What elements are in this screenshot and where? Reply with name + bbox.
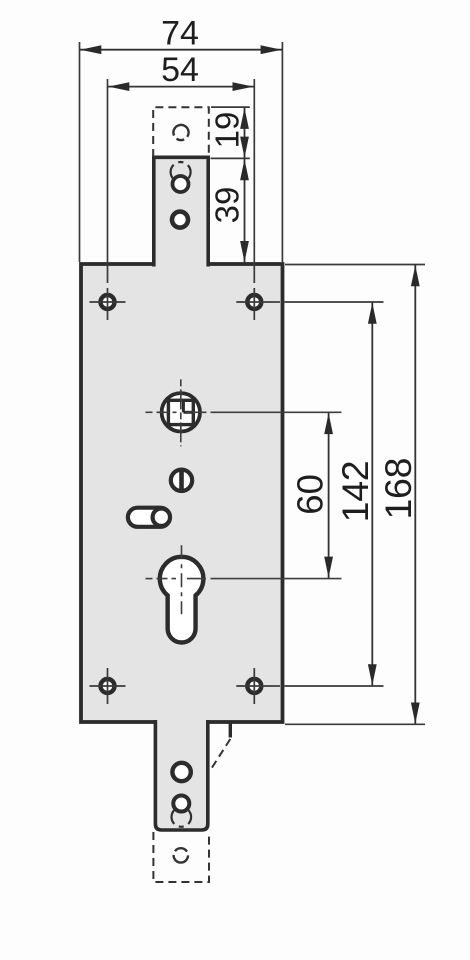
dimension 60 extension bottom (cylinder centerline)	[146, 578, 342, 580]
svg-text:74: 74	[161, 14, 199, 52]
screw hole top-right	[236, 288, 272, 320]
big hole in bottom tab	[172, 763, 190, 781]
spindle square hole	[168, 400, 193, 424]
cylinder vertical centerline	[181, 545, 183, 614]
dimension text 74	[161, 14, 199, 52]
dimension 142 line and arrows	[368, 302, 377, 686]
dimension 168 extension bottom	[285, 723, 425, 725]
dimension text 54	[161, 51, 199, 89]
screw hole top-left	[90, 288, 126, 320]
dashed diagonal at bottom tab	[210, 739, 231, 772]
svg-text:60: 60	[289, 474, 330, 515]
hole arc in top dashed extension	[170, 122, 191, 143]
dimension 54 line and arrows	[108, 82, 255, 91]
body bottom right stub	[229, 722, 232, 738]
bottom faceplate tab	[155, 720, 207, 830]
dimension 168 extension top	[285, 264, 425, 266]
thick small hole of figure-8 in top tab	[173, 176, 189, 192]
dimension text 168	[377, 458, 419, 520]
spindle vertical centerline	[180, 379, 182, 446]
dimension 54 extension left	[107, 79, 109, 283]
screw hole bottom-right	[236, 668, 272, 704]
dimension 19 and 39 line	[240, 107, 249, 263]
thin circle of figure-8 in top tab	[171, 162, 191, 182]
bottom dashed faceplate extension	[153, 832, 209, 882]
dimension 60 extension top (spindle centerline)	[146, 411, 342, 413]
screw hole bottom-left	[90, 668, 126, 704]
dimension 168 line and arrows	[411, 265, 420, 725]
dimension 74 extension left	[79, 42, 81, 262]
spindle hole circle	[162, 393, 200, 431]
dimension 19 extension top	[211, 106, 250, 108]
dimension 54 extension right	[253, 79, 255, 283]
svg-text:54: 54	[161, 51, 199, 89]
dimension 74 line and arrows	[80, 45, 283, 54]
thin circle of figure-8 in bottom tab	[172, 807, 192, 827]
dimension text 19	[208, 112, 245, 149]
follower hole with slot	[171, 470, 192, 491]
dimension 60 line and arrows	[324, 412, 333, 578]
top faceplate tab	[154, 157, 208, 266]
dimension text 39	[208, 187, 245, 224]
lock body plate	[81, 264, 283, 722]
dimension 74 extension right	[281, 42, 283, 262]
dimension 19/39 shared extension	[211, 157, 250, 159]
hole arc in bottom dashed extension	[174, 848, 188, 862]
big hole in top tab	[172, 212, 188, 228]
svg-text:39: 39	[208, 187, 245, 224]
slot with circular end	[128, 508, 170, 527]
dimension text 60	[289, 474, 330, 515]
svg-text:142: 142	[334, 461, 376, 523]
euro cylinder keyhole	[160, 557, 204, 643]
dimension 142 extension bottom	[272, 685, 384, 687]
dimension text 142	[334, 461, 376, 523]
dimension 142 extension top	[272, 301, 384, 303]
svg-text:19: 19	[208, 112, 245, 149]
top dashed faceplate extension	[153, 107, 209, 157]
thick small hole of figure-8 in bottom tab	[173, 796, 189, 812]
svg-text:168: 168	[377, 458, 419, 520]
